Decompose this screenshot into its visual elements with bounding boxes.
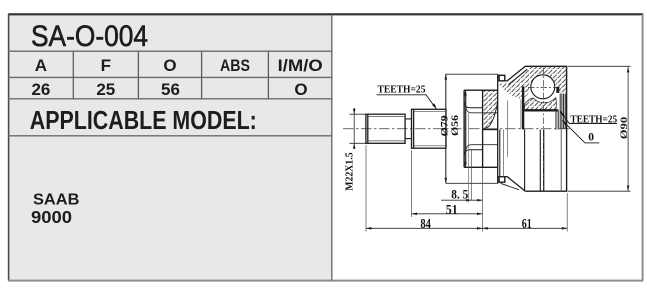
61 dimension [482, 227, 567, 229]
neck [405, 119, 411, 139]
svg-text:O: O [294, 80, 307, 99]
witness line for 8.5 [467, 113, 469, 203]
svg-text:I/M/O: I/M/O [278, 56, 323, 75]
inner race crescent (hatched) [524, 98, 556, 110]
svg-text:A: A [35, 56, 47, 75]
svg-text:9000: 9000 [31, 207, 72, 227]
84 dimension [366, 227, 482, 229]
ball [531, 75, 555, 99]
svg-text:Ø79: Ø79 [440, 115, 450, 136]
M22X1.5 dimension [350, 108, 367, 146]
inner race face (dark bar) [524, 109, 558, 111]
shelf top [505, 80, 507, 82]
51 dimension [412, 213, 483, 215]
shelf bottom [505, 176, 507, 178]
svg-text:SA-O-004: SA-O-004 [31, 20, 148, 53]
clamp band square (top) [499, 75, 505, 81]
svg-text:26: 26 [31, 80, 50, 99]
svg-text:Ø90: Ø90 [619, 117, 630, 140]
8.5 dimension [441, 199, 482, 201]
left gray panel [9, 15, 333, 282]
leader to spline [377, 95, 436, 109]
hatch: flange boot-seat wall section [483, 91, 498, 130]
race side lines [556, 110, 558, 129]
svg-text:O: O [163, 56, 176, 75]
cavity floor dark segment [483, 129, 498, 131]
clamp band square (bottom) [499, 177, 505, 183]
threaded stub M22X1.5 [366, 114, 405, 143]
inner cone line bottom [501, 183, 520, 190]
ball crosshairs [528, 87, 562, 89]
housing right face [566, 66, 568, 191]
svg-text:M22X1.5: M22X1.5 [345, 152, 356, 191]
svg-text:APPLICABLE MODEL:: APPLICABLE MODEL: [30, 105, 257, 135]
svg-text:25: 25 [96, 80, 115, 99]
svg-text:0: 0 [588, 132, 594, 144]
boot groove floor lines [464, 103, 482, 155]
svg-text:51: 51 [446, 203, 458, 218]
cavity fillet boundary [483, 102, 498, 129]
boot seat cylinder face [497, 74, 499, 183]
housing outer top edge [525, 65, 567, 67]
svg-text:F: F [101, 56, 111, 75]
spline minor lines [414, 112, 446, 146]
dia-90 dimension [568, 66, 631, 191]
bore stem line [506, 101, 508, 158]
inner cone line top [509, 69, 528, 84]
outer frame border [8, 13, 643, 15]
svg-text:Ø56: Ø56 [451, 115, 461, 136]
table grid lines [8, 15, 332, 281]
housing bottom edge [525, 190, 567, 192]
bore lines [466, 108, 498, 149]
cage blob right of ball [556, 87, 559, 93]
bottom dimension witness lines [366, 145, 567, 232]
svg-text:61: 61 [522, 217, 532, 232]
centerline (main axis) [343, 128, 571, 130]
inner face line [560, 129, 562, 191]
boot flange (dia56 flange) outline [464, 90, 498, 167]
cone shoulder top [507, 66, 525, 81]
dia-56 dimension [464, 90, 466, 167]
spline teeth cluster at opening [560, 94, 565, 129]
svg-text:ABS: ABS [220, 56, 250, 75]
svg-text:SAAB: SAAB [33, 191, 79, 208]
svg-text:8. 5: 8. 5 [451, 187, 468, 202]
value row 26 25 56 O [31, 80, 307, 99]
dia-79 dimension: extension rectangle [446, 74, 498, 183]
hatch: cone+top wall (top half section) [499, 69, 529, 99]
spline shaft [412, 109, 447, 148]
cone shoulder bottom [507, 177, 525, 192]
thread minor diameter lines [368, 117, 405, 141]
header row A F O ABS I/M/O [35, 56, 323, 75]
exterior verticals (bottom half) [525, 130, 544, 192]
cage bar left of ball [522, 86, 524, 129]
svg-text:TEETH=25: TEETH=25 [378, 85, 426, 96]
svg-text:56: 56 [161, 80, 180, 99]
svg-text:84: 84 [420, 217, 431, 232]
